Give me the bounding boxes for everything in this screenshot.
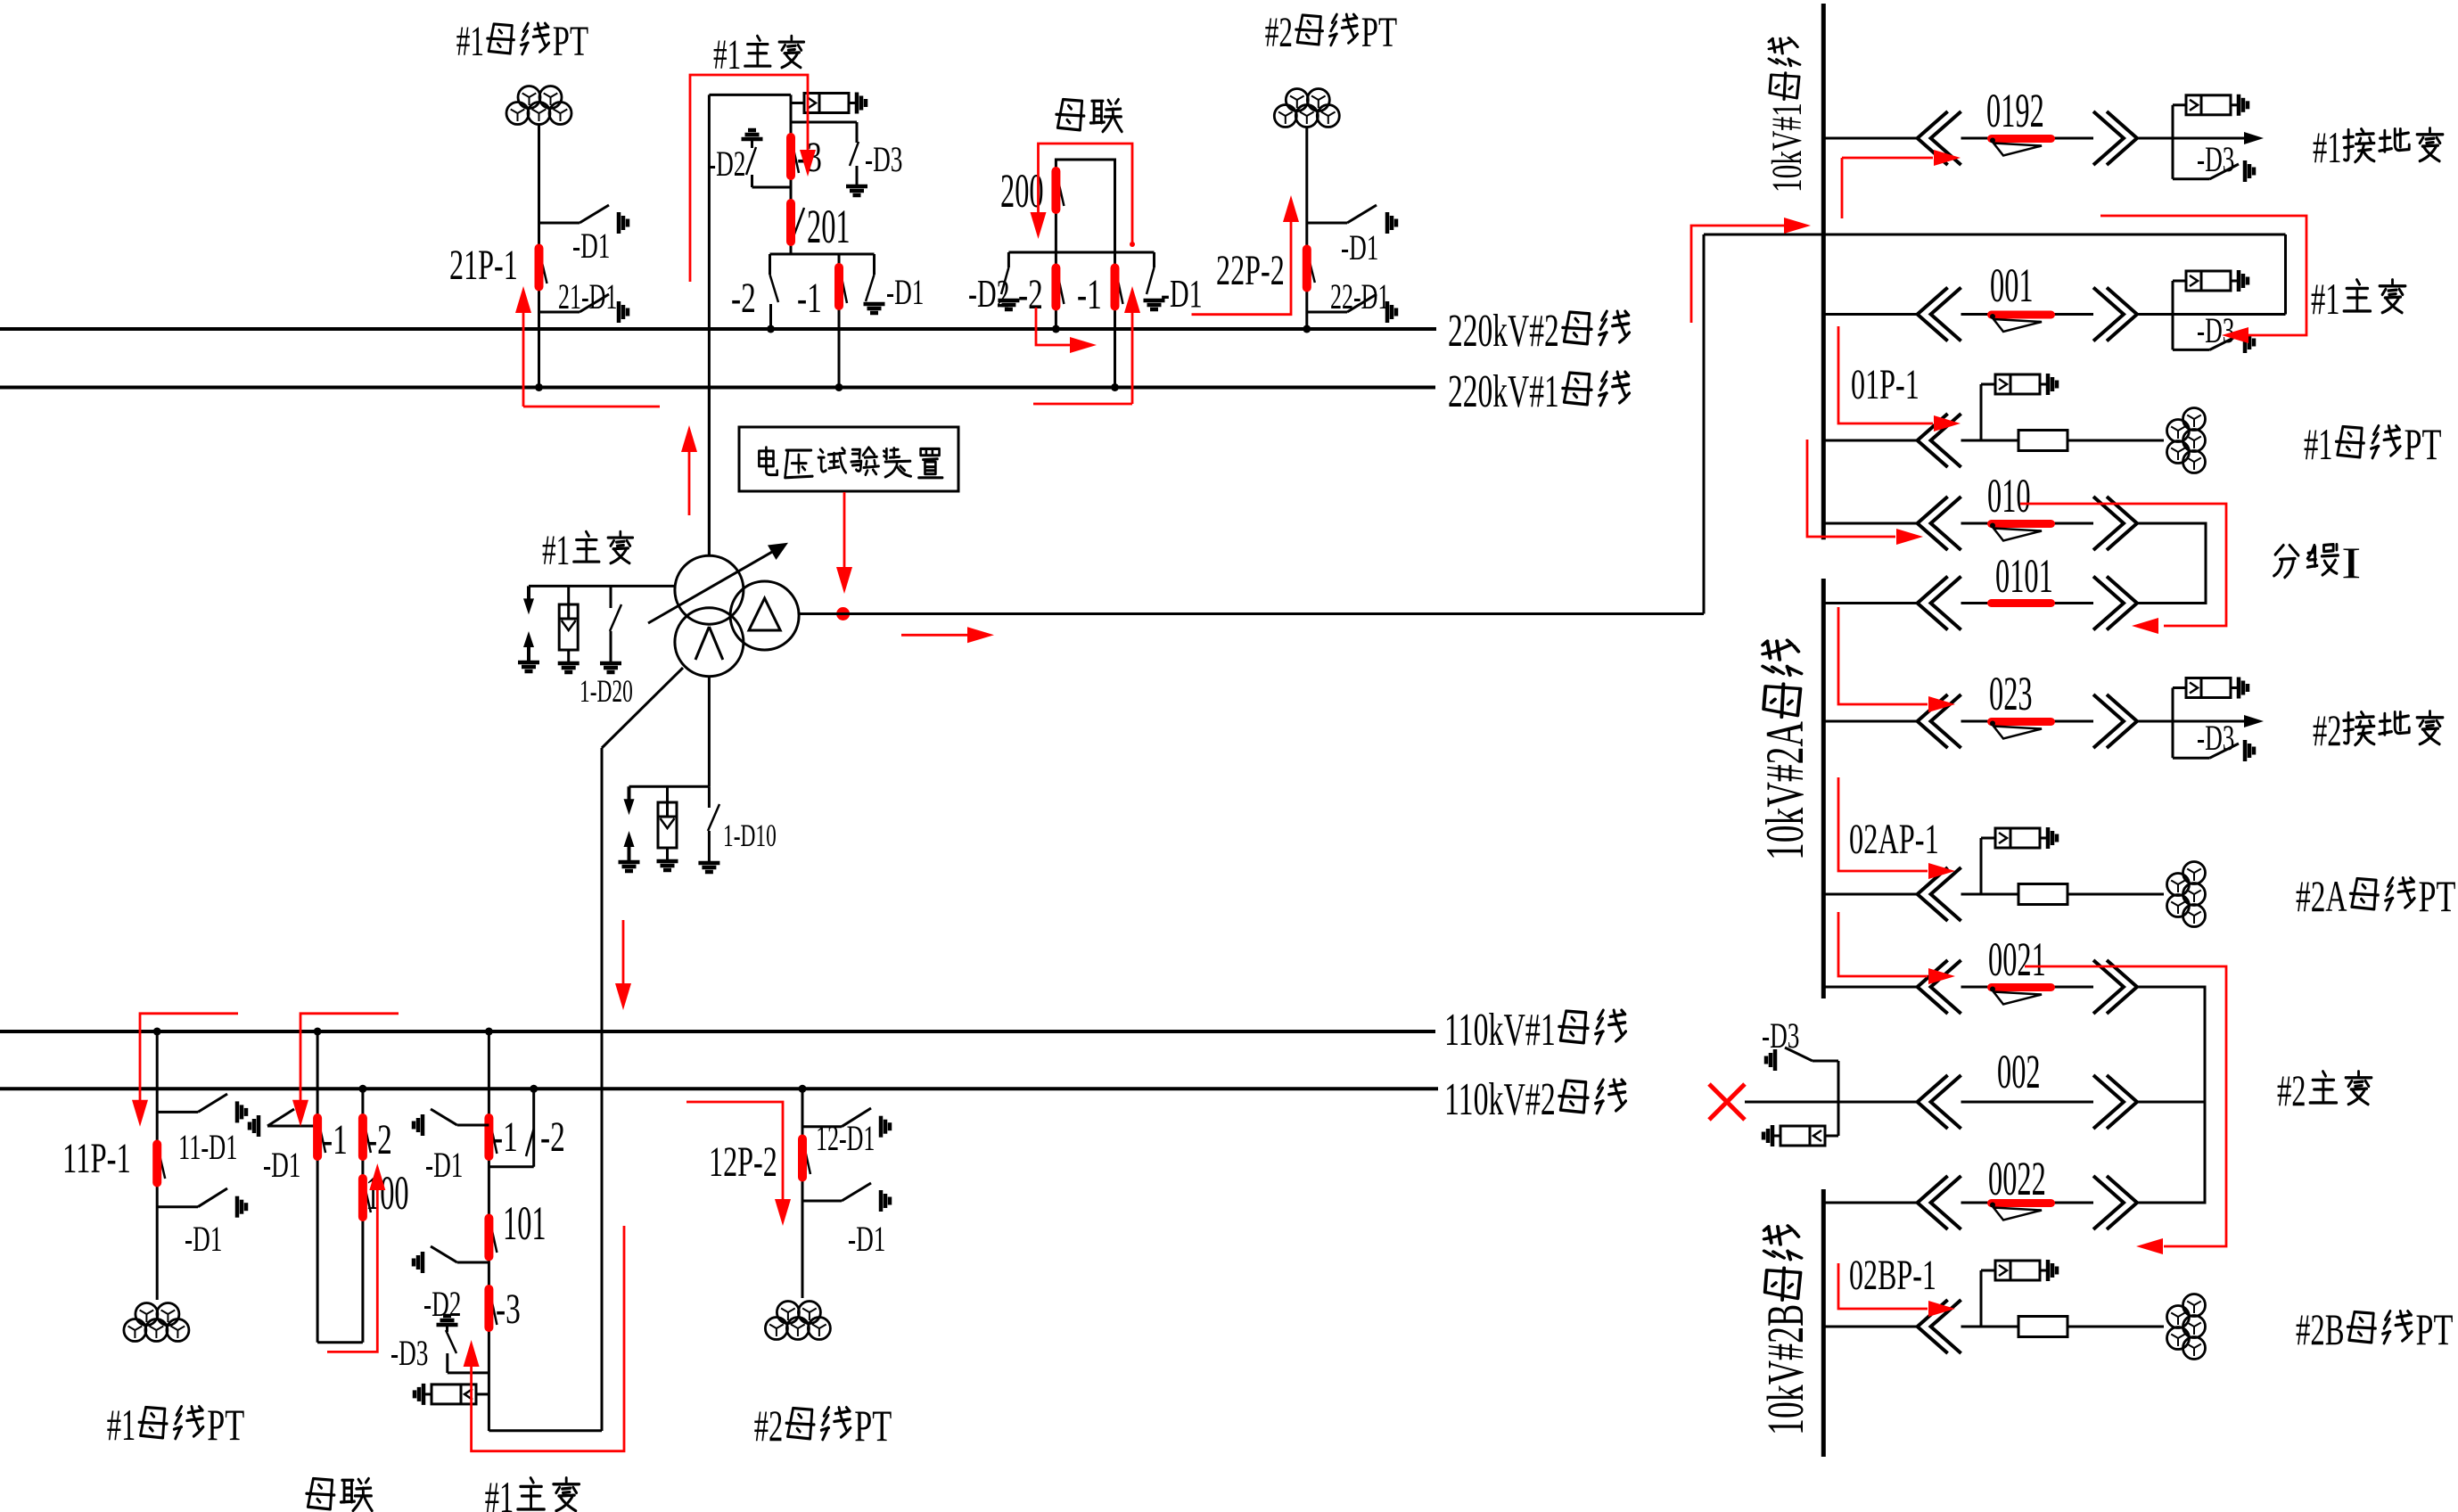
- earthing switch -D1 with earth: [873, 254, 876, 275]
- red arrow into 02BP-1: [1838, 1263, 1928, 1309]
- svg-text:101: 101: [503, 1196, 547, 1250]
- surge arrester (HV bay): [791, 102, 804, 104]
- breaker 0022 (closed, red): [1992, 1199, 2051, 1207]
- red arrow into 023: [1838, 607, 1928, 704]
- drawout contact (line side) 0022: [2107, 1176, 2137, 1229]
- red bracket with down arrow (201 bay): [690, 75, 808, 282]
- drawout contact (bus side) 0022: [1918, 1176, 1948, 1229]
- HV neutral surge arrester: [567, 586, 570, 604]
- PT transformer cluster (02AP-1): [2183, 862, 2206, 884]
- red bracket with left arrow (分段): [2020, 504, 2226, 626]
- feeder wire 0021: [1823, 986, 1917, 989]
- breaker 001 (closed, red): [1992, 311, 2051, 319]
- earthing switch -D1 with earth: [457, 1124, 489, 1127]
- drawout contact 0101 (line side): [2107, 577, 2137, 630]
- breaker 023 (closed, red): [1992, 718, 2051, 726]
- svg-text:001: 001: [1990, 259, 2034, 312]
- svg-text:02BP-1: 02BP-1: [1849, 1252, 1936, 1299]
- wire to tee: [2137, 137, 2173, 140]
- red down arrow on feeder: [622, 920, 625, 983]
- svg-text:110kV#2: 110kV#2: [1444, 1074, 1556, 1125]
- svg-text:-D2: -D2: [423, 1284, 461, 1324]
- svg-text:-D1: -D1: [886, 272, 924, 312]
- svg-text:-D3: -D3: [2197, 310, 2234, 350]
- svg-text:-D1: -D1: [263, 1145, 300, 1185]
- label 10kV#2A bus (vertical): [1755, 640, 1814, 860]
- disconnector -2 (closed, red): [364, 1121, 371, 1153]
- disconnector -1 (closed, red): [318, 1121, 325, 1153]
- breaker 22P-2 (closed, red): [1308, 254, 1315, 283]
- bus 220kV#2 (top): [0, 327, 1436, 331]
- HV neutral bus wire: [529, 585, 675, 588]
- svg-text:002: 002: [1997, 1045, 2041, 1098]
- svg-text:PT: PT: [2405, 419, 2442, 469]
- PT transformer cluster (02BP-1): [2183, 1294, 2206, 1317]
- svg-text:1-D10: 1-D10: [723, 818, 777, 853]
- drawout contact (line side) 001: [2107, 288, 2137, 341]
- svg-text:-D3: -D3: [2197, 139, 2234, 179]
- PT transformer cluster: [518, 86, 540, 109]
- wire to tee (001): [2137, 313, 2173, 316]
- earthing switch -D3 with earth: [791, 121, 857, 124]
- red bracket with left arrow (#2主变): [2025, 966, 2226, 1246]
- svg-text:21-D1: 21-D1: [558, 276, 617, 316]
- PT transformer cluster: [1286, 89, 1308, 111]
- red up arrow beside HV lead: [688, 450, 691, 515]
- wire bus2 to PT: [802, 1089, 804, 1298]
- label 10kV#2B bus (vertical): [1756, 1226, 1814, 1435]
- earthing switch -D3 with earth (023): [2172, 721, 2174, 758]
- svg-text:0192: 0192: [1986, 84, 2044, 137]
- svg-text:#2: #2: [754, 1401, 784, 1450]
- wire to PT: [2068, 440, 2164, 442]
- fuse 02AP-1: [2018, 884, 2068, 905]
- wire PT to bus1: [538, 125, 540, 388]
- disconnector -2 (closed, red) to bus2: [1055, 252, 1057, 329]
- earthing switch -D3 with earth (001): [2172, 315, 2174, 350]
- drawout contact (bus side) 010: [1918, 497, 1948, 550]
- red arrow right on LV lead: [901, 634, 968, 637]
- drawout contact (line side) 010: [2107, 497, 2137, 550]
- MV neutral rod gap: [628, 786, 631, 801]
- bay frame wire: [708, 94, 711, 555]
- svg-text:220kV#2: 220kV#2: [1448, 306, 1559, 357]
- fuse 02BP-1: [2018, 1317, 2068, 1337]
- red bracket with down arrow (11P-1): [140, 1014, 238, 1101]
- svg-text:110kV#1: 110kV#1: [1444, 1005, 1556, 1056]
- svg-text:PT: PT: [1361, 9, 1397, 56]
- feeder wire 010: [1823, 522, 1917, 525]
- earthing switch -D2 with earth: [1007, 252, 1010, 267]
- drawout contact 01P-1: [1918, 414, 1948, 467]
- drawout contact (bus side) 0021: [1918, 960, 1948, 1014]
- disconnector -2 (open) to bus2: [769, 254, 771, 275]
- bus 110kV#1: [0, 1030, 1435, 1033]
- svg-text:-D3: -D3: [1762, 1015, 1799, 1056]
- feeder wire 001: [1823, 313, 1917, 316]
- label 母联 (110kV coupler): [307, 1479, 334, 1509]
- red arrow into 10kV bus 1: [1691, 226, 1784, 323]
- coupler tie wire: [1008, 251, 1154, 254]
- surge arrester (001): [2172, 281, 2174, 315]
- svg-text:201: 201: [807, 200, 851, 253]
- disconnector -1 (closed, red): [489, 1121, 497, 1154]
- red arrow from test device to tap point: [843, 492, 846, 571]
- svg-text:10kV#2A: 10kV#2A: [1755, 721, 1814, 860]
- svg-text:-D1: -D1: [1341, 227, 1378, 267]
- MV neutral earthing switch 1-D10: [708, 786, 711, 808]
- coupler top bridge wire: [1056, 160, 1114, 252]
- svg-text:#2: #2: [2277, 1065, 2306, 1115]
- breaker 0192 (closed, red): [1992, 135, 2051, 143]
- wire bus1 to HV winding: [708, 388, 711, 555]
- svg-text:#1: #1: [542, 527, 570, 574]
- MV winding down lead: [708, 677, 711, 787]
- svg-text:-2: -2: [540, 1113, 565, 1161]
- MV neutral surge arrester: [666, 786, 669, 802]
- disconnector 21-D1 lower with earth: [539, 311, 580, 314]
- red X open point: [1709, 1084, 1745, 1120]
- wire 002 to connector: [2137, 1101, 2205, 1104]
- bus 110kV#2: [0, 1087, 1438, 1090]
- svg-text:-1: -1: [1077, 271, 1102, 318]
- wire bus1 to PT: [156, 1031, 159, 1300]
- svg-text:-1: -1: [323, 1116, 348, 1163]
- PT transformer cluster (01P-1): [2183, 408, 2206, 431]
- breaker 100 (closed, red): [364, 1182, 371, 1212]
- HV neutral rod gap: [527, 586, 530, 600]
- breaker 200 (closed, red): [1056, 175, 1064, 206]
- breaker 11P-1 (closed, red): [158, 1148, 165, 1179]
- line continues arrow: [2173, 137, 2244, 140]
- svg-text:-2: -2: [1018, 271, 1043, 318]
- svg-text:11P-1: 11P-1: [62, 1135, 131, 1182]
- bus 10kV#1 (vertical): [1821, 4, 1826, 539]
- disconnector -D1 upper with earth: [539, 222, 580, 225]
- svg-text:-D3: -D3: [865, 139, 902, 179]
- red arrow into 0192: [1841, 158, 1844, 218]
- wire split below 201: [770, 253, 875, 256]
- drawout contact 02AP-1: [1918, 867, 1948, 921]
- wire to tee (023): [2137, 720, 2173, 723]
- disconnector -D1 upper with earth: [1307, 222, 1347, 225]
- drawout contact 002 (bus side): [1918, 1075, 1948, 1129]
- svg-text:-2: -2: [367, 1116, 392, 1163]
- surge arrester (01P-1): [1980, 384, 1983, 440]
- svg-text:10kV#1: 10kV#1: [1763, 103, 1811, 193]
- disconnector -D1 with earth: [802, 1200, 842, 1203]
- label 母联: [1056, 100, 1084, 130]
- fuse 01P-1: [2018, 431, 2068, 451]
- svg-text:#1: #1: [2304, 419, 2333, 469]
- svg-text:#1: #1: [456, 18, 484, 65]
- earthing switch -D3 with earth: [2172, 138, 2174, 179]
- breaker 21P-1 (closed, red): [540, 253, 547, 283]
- OLTC regulation arrow: [648, 549, 777, 623]
- red bracket with down arrow (coupler): [1039, 144, 1133, 243]
- svg-text:-2: -2: [731, 275, 756, 322]
- red bracket with down arrow (12P-2): [686, 1102, 783, 1201]
- svg-text:1-D20: 1-D20: [580, 673, 633, 709]
- svg-text:-D3: -D3: [390, 1333, 428, 1373]
- red path with up arrow (22P-2): [1192, 220, 1292, 315]
- breaker 101 (closed, red): [489, 1220, 497, 1253]
- svg-text:#1: #1: [2313, 122, 2342, 172]
- earthing switch -D2 with earth: [457, 1261, 489, 1264]
- bus 10kV#2B (vertical): [1821, 1189, 1826, 1457]
- bay main wire: [488, 1031, 490, 1431]
- red wire under bus1 left: [523, 406, 660, 408]
- drawout contact 002 (line side): [2107, 1075, 2137, 1129]
- svg-text:PT: PT: [2416, 1304, 2454, 1354]
- LV lead wire to 10kV trunk: [799, 612, 1704, 615]
- svg-text:02AP-1: 02AP-1: [1849, 816, 1939, 863]
- PT transformer cluster: [136, 1303, 158, 1326]
- wire 001 load side to riser corner: [2173, 313, 2286, 316]
- breaker 201 (closed, red): [793, 208, 804, 239]
- red path arrow at 21P-1: [522, 303, 525, 407]
- disconnector -3 (closed, red): [792, 141, 799, 173]
- voltage test device label box 电压试验装置: [739, 427, 958, 491]
- svg-text:-D2: -D2: [708, 144, 745, 184]
- feeder wire 0101: [1823, 602, 1917, 604]
- surge arrester (02BP-1): [1980, 1270, 1983, 1327]
- svg-text:-1: -1: [493, 1113, 518, 1161]
- red arrow up at -1: [1033, 403, 1132, 406]
- disconnector -D1 with earth: [157, 1205, 198, 1208]
- connector wire 010 to 0101: [2137, 523, 2206, 604]
- drawout contact (bus side) 0192: [1918, 111, 1948, 165]
- MV feeder diagonal to 110kV: [602, 668, 683, 748]
- earthing switch -D2 with earth: [742, 137, 763, 142]
- svg-text:-1: -1: [797, 275, 822, 322]
- svg-text:0022: 0022: [1988, 1152, 2046, 1205]
- svg-text:#1: #1: [2311, 274, 2340, 324]
- bus 10kV#2A (vertical): [1821, 579, 1826, 998]
- HV winding circle: [675, 555, 744, 624]
- wire PT to bus2: [1305, 127, 1308, 329]
- svg-text:010: 010: [1987, 469, 2031, 522]
- disconnector -1 (closed, red) to bus1: [1114, 252, 1116, 388]
- drawout contact (line side) 0192: [2107, 111, 2137, 165]
- feeder wire 02AP-1: [1823, 893, 1917, 896]
- earthing switch -D1 with earth (left): [267, 1125, 317, 1128]
- svg-text:#2: #2: [2313, 705, 2342, 755]
- svg-text:PT: PT: [207, 1400, 244, 1450]
- breaker 12P-2 (closed, red): [803, 1142, 810, 1174]
- drawout contact (bus side) 001: [1918, 288, 1948, 341]
- svg-text:PT: PT: [854, 1401, 892, 1450]
- breaker 010 (closed, red): [1992, 520, 2051, 528]
- coupler right leg wire: [361, 1089, 364, 1343]
- wire X to breaker: [1745, 1101, 1918, 1104]
- connector wire 0021 down to 0022: [2137, 987, 2205, 1203]
- earthing switch -D1 with earth: [1153, 252, 1155, 267]
- svg-text:22-D1: 22-D1: [1330, 276, 1389, 316]
- surge arrester (023): [2172, 688, 2174, 722]
- PT transformer cluster: [777, 1302, 799, 1324]
- disconnector -2 (open) from bus2: [532, 1089, 535, 1166]
- drawout contact 02BP-1: [1918, 1300, 1948, 1353]
- feeder wire 0022: [1823, 1202, 1917, 1204]
- drawout contact (bus side) 023: [1918, 694, 1948, 748]
- coupler bottom wire: [317, 1341, 363, 1344]
- svg-text:#2A: #2A: [2296, 871, 2347, 921]
- trunk riser wire: [1703, 234, 1706, 614]
- svg-text:0021: 0021: [1988, 933, 2046, 986]
- feeder wire 02BP-1: [1823, 1326, 1917, 1328]
- svg-text:-D1: -D1: [185, 1219, 222, 1259]
- line continues arrow (023): [2173, 720, 2244, 723]
- disconnector -1 (closed, red) to bus1: [838, 254, 841, 388]
- svg-text:0101: 0101: [1995, 549, 2053, 603]
- svg-text:I: I: [2341, 538, 2362, 588]
- svg-text:PT: PT: [2419, 871, 2456, 921]
- red arrow into 0021: [1838, 912, 1928, 976]
- svg-text:023: 023: [1989, 667, 2033, 720]
- svg-text:12P-2: 12P-2: [709, 1138, 777, 1186]
- drawout contact (line side) 023: [2107, 694, 2137, 748]
- svg-text:21P-1: 21P-1: [449, 242, 518, 289]
- surge arrester (002): [1837, 1102, 1840, 1136]
- LV delta winding circle: [730, 581, 799, 650]
- MV winding circle: [675, 608, 744, 677]
- svg-text:01P-1: 01P-1: [1851, 361, 1920, 408]
- earthing switch -D3 with earth (002): [1837, 1061, 1840, 1102]
- breaker 0021 (closed, red): [1992, 983, 2051, 991]
- svg-text:#1: #1: [485, 1472, 514, 1512]
- svg-text:22P-2: 22P-2: [1216, 247, 1285, 294]
- coupler left leg wire: [316, 1031, 319, 1343]
- svg-text:-D1: -D1: [1161, 272, 1203, 316]
- svg-text:10kV#2B: 10kV#2B: [1756, 1304, 1814, 1435]
- svg-text:-D1: -D1: [425, 1145, 463, 1185]
- earthing switch -D3 with earth above: [437, 1323, 458, 1327]
- surge arrester (101 bay): [476, 1393, 489, 1395]
- svg-text:-3: -3: [496, 1286, 521, 1333]
- red path with up arrow (coupler 100): [327, 1188, 377, 1352]
- svg-text:11-D1: 11-D1: [178, 1127, 237, 1167]
- svg-text:#1: #1: [713, 31, 741, 78]
- surge arrester (0192): [2172, 105, 2174, 138]
- HV neutral earthing switch 1-D20: [610, 586, 612, 608]
- surge arrester (02AP-1): [1980, 838, 1983, 894]
- red arrow into 02AP-1: [1838, 777, 1928, 871]
- red arrow into 01P-1: [1838, 326, 1933, 423]
- feeder wire 01P-1: [1823, 440, 1917, 442]
- bay bottom wire to feeder: [489, 1429, 602, 1432]
- label 分段 I: [2274, 546, 2298, 578]
- svg-text:-D1: -D1: [848, 1219, 885, 1259]
- disconnector -3 (closed, red): [489, 1292, 497, 1325]
- svg-text:#1: #1: [107, 1400, 136, 1450]
- disconnector truck 0101 (closed, red): [1992, 599, 2051, 607]
- disconnector 22-D1 lower with earth: [1307, 311, 1347, 314]
- drawout contact 0101 (bus side): [1918, 577, 1948, 630]
- red bracket with left arrow (001): [2100, 216, 2306, 335]
- svg-text:-D3: -D3: [2197, 718, 2234, 758]
- MV neutral bus wire: [629, 785, 710, 788]
- bus 220kV#1 (bottom): [0, 386, 1435, 390]
- red arrow right below bus2: [1036, 308, 1070, 345]
- svg-text:-D2: -D2: [968, 272, 1010, 316]
- drawout contact (line side) 0021: [2107, 960, 2137, 1014]
- svg-text:-D1: -D1: [572, 226, 610, 266]
- feeder wire 0192: [1823, 137, 1917, 140]
- svg-text:#2B: #2B: [2296, 1304, 2345, 1354]
- red bracket with down arrow (coupler): [300, 1014, 399, 1101]
- svg-text:#2: #2: [1265, 9, 1293, 56]
- svg-text:220kV#1: 220kV#1: [1448, 366, 1559, 417]
- feeder wire 023: [1823, 720, 1917, 723]
- red up arrow at -D3: [472, 1226, 624, 1451]
- disconnector 11-D1 with earth: [157, 1111, 198, 1113]
- svg-text:12-D1: 12-D1: [816, 1118, 875, 1158]
- red tap dot on LV lead: [836, 607, 850, 620]
- svg-text:PT: PT: [553, 18, 588, 65]
- red arrow into 010: [1807, 440, 1895, 537]
- disconnector 12-D1 with earth: [802, 1125, 842, 1128]
- svg-text:100: 100: [366, 1166, 409, 1220]
- label 10kV#1 bus (vertical): [1763, 38, 1811, 193]
